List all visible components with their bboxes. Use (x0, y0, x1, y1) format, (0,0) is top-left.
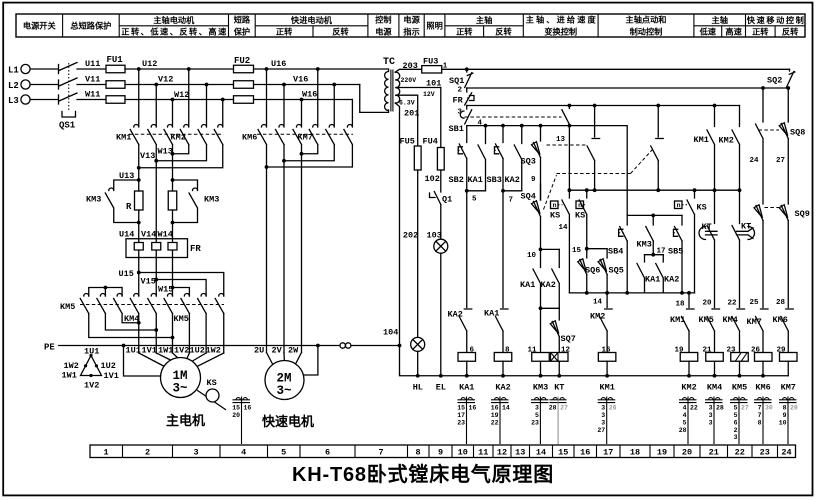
dashed linkage KM6-KM7 (257, 133, 353, 135)
coil KM4 (706, 353, 724, 362)
svg-text:KM3: KM3 (204, 195, 219, 205)
svg-text:1V1: 1V1 (104, 371, 119, 381)
svg-text:KM5: KM5 (732, 383, 747, 393)
brake KA1 KA2 pair (520, 249, 559, 310)
contact SB1 bypass (562, 106, 570, 191)
wire L1 to QS1 (30, 68, 57, 70)
svg-text:KM4: KM4 (707, 383, 722, 393)
motor 2M (265, 361, 304, 400)
contact usage table KM5 (730, 397, 749, 445)
svg-text:V15: V15 (141, 277, 156, 287)
svg-text:KT: KT (554, 383, 564, 393)
contact SQ3-linked interlock (587, 106, 600, 191)
svg-text:SQ1: SQ1 (449, 76, 464, 86)
svg-text:KA1: KA1 (645, 275, 660, 285)
contact usage table KM3 (531, 397, 549, 445)
svg-text:5: 5 (683, 419, 687, 426)
svg-text:7: 7 (378, 448, 383, 458)
svg-text:KM6: KM6 (242, 133, 257, 143)
svg-text:21: 21 (709, 448, 719, 458)
svg-text:KA1: KA1 (520, 280, 535, 290)
contact KM3 aux (637, 215, 654, 254)
node 5 bar (467, 190, 486, 192)
svg-text:3: 3 (709, 404, 713, 411)
jog button SB5 (668, 215, 683, 293)
svg-text:16: 16 (469, 404, 477, 411)
svg-text:11: 11 (478, 448, 488, 458)
winding bus wires (89, 314, 173, 338)
svg-text:13: 13 (515, 448, 525, 458)
svg-text:8: 8 (783, 404, 787, 411)
limit switch SQ3 (521, 126, 541, 200)
svg-text:1W1: 1W1 (62, 371, 77, 381)
svg-text:3: 3 (601, 404, 605, 411)
limit switch SQ1 (449, 67, 473, 87)
svg-text:220V: 220V (401, 77, 417, 84)
svg-text:KM2: KM2 (719, 136, 734, 146)
svg-text:低速: 低速 (699, 27, 717, 37)
fuse FU3 (422, 66, 442, 73)
svg-text:2: 2 (734, 427, 738, 434)
svg-text:U16: U16 (271, 59, 286, 69)
svg-text:22: 22 (728, 300, 738, 308)
speed relay contact KS-A (550, 190, 569, 293)
contact KM7 interlock (747, 309, 769, 353)
svg-text:7: 7 (758, 404, 762, 411)
svg-text:FU2: FU2 (234, 56, 250, 66)
wire 1 / control top rail (442, 68, 790, 70)
contact KM2 run aux (719, 106, 742, 193)
contactor KM7 main contacts (309, 69, 352, 145)
svg-text:202: 202 (403, 231, 418, 241)
svg-text:27: 27 (776, 157, 785, 165)
svg-text:V12: V12 (158, 75, 173, 85)
svg-text:KS: KS (207, 378, 217, 388)
svg-text:主电机: 主电机 (166, 413, 205, 428)
svg-text:14: 14 (536, 448, 546, 458)
svg-text:12V: 12V (423, 91, 435, 98)
svg-text:正转: 正转 (276, 27, 293, 37)
svg-text:W16: W16 (302, 90, 317, 100)
svg-text:22: 22 (491, 419, 499, 426)
svg-text:SB4: SB4 (608, 247, 623, 257)
svg-text:9: 9 (531, 176, 536, 184)
switch Q1 (430, 192, 453, 205)
contactor KM4 contacts (130, 294, 172, 314)
contact usage table KT (549, 397, 568, 445)
svg-text:TC: TC (383, 57, 395, 68)
svg-text:17: 17 (603, 448, 613, 458)
svg-text:20: 20 (703, 300, 713, 308)
svg-text:V14: V14 (141, 230, 156, 240)
limit switch SQ5 (598, 249, 624, 293)
limit switch SQ9 right (765, 205, 810, 308)
svg-text:3: 3 (601, 412, 605, 419)
svg-text:快速电机: 快速电机 (262, 414, 314, 429)
wire 2 (467, 87, 789, 89)
svg-text:1V1: 1V1 (142, 346, 157, 356)
merge rail wire 14 (569, 292, 694, 294)
contact KA1 interlock (484, 309, 508, 353)
svg-text:快进电动机: 快进电动机 (290, 15, 333, 25)
svg-text:SB2: SB2 (449, 175, 464, 185)
svg-text:U11: U11 (85, 59, 100, 69)
motor lead wires 1M (139, 314, 224, 354)
jog KA1 KA2 pair (637, 255, 679, 293)
svg-text:反转: 反转 (495, 27, 512, 37)
contact usage table KA2 (491, 397, 510, 445)
svg-text:3: 3 (709, 419, 713, 426)
svg-text:KA2: KA2 (505, 175, 520, 185)
svg-text:15: 15 (558, 448, 568, 458)
wire 101 FU4 branch (440, 88, 442, 148)
svg-text:SB5: SB5 (668, 247, 683, 257)
svg-text:25: 25 (750, 299, 760, 307)
limit switch SQ8 (759, 88, 806, 204)
svg-text:19: 19 (491, 412, 499, 419)
contactor KM2 main contacts (180, 69, 223, 145)
node 17 (651, 253, 655, 257)
contact usage table KM2 (679, 397, 698, 445)
svg-text:KS: KS (575, 211, 585, 221)
svg-text:KM5: KM5 (174, 314, 189, 324)
fuse FU4 (437, 148, 444, 171)
svg-text:29: 29 (790, 404, 798, 411)
svg-text:反转: 反转 (782, 27, 799, 37)
speed relay KS link (198, 391, 226, 410)
svg-text:KM3: KM3 (86, 195, 101, 205)
jog button SB4 (608, 215, 627, 293)
svg-text:KA2: KA2 (448, 310, 463, 320)
start button SB2 (449, 126, 467, 191)
lamp HL (411, 337, 425, 375)
svg-text:反转: 反转 (332, 27, 349, 37)
svg-text:V11: V11 (85, 75, 100, 85)
svg-text:主轴电动机: 主轴电动机 (153, 15, 195, 25)
svg-text:16: 16 (491, 404, 499, 411)
star point bar KM5 (89, 288, 122, 297)
svg-text:照明: 照明 (426, 22, 442, 31)
wire V12 phase line (125, 84, 360, 86)
svg-text:电源: 电源 (403, 15, 420, 25)
svg-text:28: 28 (776, 299, 786, 307)
svg-text:1U1: 1U1 (84, 347, 99, 357)
svg-text:SQ9: SQ9 (795, 209, 810, 219)
coil KA2 (494, 353, 512, 362)
svg-text:制动控制: 制动控制 (630, 27, 663, 37)
dashed linkage KM1-KM2 (129, 133, 224, 135)
contact KM6 interlock (773, 309, 794, 353)
terminal labels 2M (254, 346, 299, 356)
svg-text:27: 27 (597, 427, 605, 434)
svg-text:16: 16 (580, 448, 590, 458)
dashed link SQ3 to interlock (547, 144, 587, 146)
svg-text:4: 4 (241, 448, 246, 458)
svg-text:20: 20 (232, 412, 240, 419)
svg-text:KA1: KA1 (484, 309, 499, 319)
wire 4 bus (467, 126, 627, 216)
svg-text:U12: U12 (142, 59, 157, 69)
limit switch SQ6 (578, 249, 601, 293)
svg-text:W12: W12 (174, 90, 189, 100)
svg-text:正转: 正转 (456, 27, 473, 37)
wire U12 phase line (125, 68, 389, 70)
svg-text:28: 28 (549, 404, 557, 411)
start button SB3 (487, 126, 504, 191)
rapid branch contact SQ8-linked (756, 86, 765, 204)
svg-text:U15: U15 (119, 269, 134, 279)
svg-text:28: 28 (679, 427, 687, 434)
svg-text:KA1: KA1 (468, 175, 483, 185)
wire L2 to QS1 (30, 84, 57, 86)
svg-text:R: R (126, 202, 132, 212)
svg-text:KT: KT (702, 222, 712, 232)
wire 103 (440, 205, 442, 240)
coil KM3 (532, 353, 550, 362)
svg-text:PE: PE (44, 343, 55, 353)
svg-text:SQ2: SQ2 (767, 76, 782, 86)
svg-text:KS: KS (550, 211, 560, 221)
svg-text:8: 8 (415, 448, 420, 458)
wire PE line (59, 345, 400, 347)
svg-text:KM4: KM4 (723, 315, 738, 325)
svg-text:控制: 控制 (375, 15, 391, 25)
svg-text:U14: U14 (119, 230, 134, 240)
jog box top bar (627, 214, 682, 216)
contact SQ4-linked interlock (651, 106, 664, 191)
svg-text:3: 3 (734, 434, 738, 441)
svg-text:1: 1 (443, 63, 448, 71)
contact KM3 left bypass (105, 180, 139, 223)
coil drop wires (467, 361, 789, 376)
svg-text:KA2: KA2 (495, 383, 510, 393)
wire 102 (440, 170, 442, 192)
svg-text:电源开关: 电源开关 (23, 21, 57, 31)
svg-text:2: 2 (458, 87, 463, 95)
svg-text:2U: 2U (254, 346, 264, 356)
wire 3 (467, 105, 740, 107)
coil KM1 (598, 353, 616, 362)
contact KM2 interlock (590, 293, 612, 353)
svg-text:L1: L1 (8, 65, 19, 75)
svg-text:3~: 3~ (173, 382, 188, 396)
speed relay contact KS-B (575, 190, 587, 249)
contact usage table KM6 (754, 397, 773, 445)
svg-text:KS: KS (697, 203, 707, 213)
coil KM5 (731, 353, 749, 362)
svg-text:KM3: KM3 (637, 240, 652, 250)
contact usage table KM1 (597, 397, 616, 445)
wire W13 through R2 (172, 180, 174, 239)
wire KM2 cross outputs (139, 145, 223, 168)
svg-text:14: 14 (559, 224, 569, 232)
speed relay KS (206, 389, 219, 402)
wire KM1 outputs U13 V13 W13 (139, 145, 173, 239)
svg-text:KH-T68卧式镗床电气原理图: KH-T68卧式镗床电气原理图 (292, 462, 554, 486)
wire V15 branch (156, 280, 206, 297)
fuse FU2 (234, 56, 254, 103)
svg-text:5: 5 (535, 412, 539, 419)
svg-text:变换控制: 变换控制 (544, 27, 577, 37)
svg-text:101: 101 (426, 79, 441, 89)
svg-text:KM6: KM6 (773, 315, 788, 325)
wire W11 (77, 99, 106, 101)
limit switch SQ4 (521, 184, 541, 249)
svg-text:3: 3 (601, 419, 605, 426)
contact KM5 interlock (699, 309, 720, 353)
svg-text:KM2: KM2 (681, 383, 696, 393)
svg-text:n: n (677, 202, 681, 209)
svg-text:27: 27 (741, 404, 749, 411)
svg-text:15: 15 (232, 404, 240, 411)
svg-text:主轴: 主轴 (712, 15, 728, 25)
resistor R2 (W13) (168, 191, 177, 210)
motor lead slants 2M (267, 353, 302, 365)
svg-text:28: 28 (716, 404, 724, 411)
node 7 bar (503, 190, 522, 192)
wire U13 through R (138, 180, 140, 239)
limit switch SQ7 (550, 308, 576, 352)
svg-text:8: 8 (505, 347, 510, 355)
svg-text:EL: EL (436, 383, 446, 393)
contact KA1 self-hold (468, 126, 486, 191)
svg-text:23: 23 (531, 419, 539, 426)
svg-text:n: n (553, 202, 557, 209)
contact KM1 run aux (694, 106, 715, 191)
svg-text:1W1: 1W1 (158, 346, 173, 356)
resistor R (U13) (135, 191, 144, 210)
coil KA1 (458, 353, 476, 362)
node W13 junction (171, 178, 175, 182)
svg-text:4: 4 (683, 412, 687, 419)
svg-text:24: 24 (750, 157, 760, 165)
wire W15 branch (173, 288, 190, 297)
svg-text:SQ3: SQ3 (521, 157, 536, 167)
svg-text:18: 18 (630, 448, 640, 458)
svg-text:KT: KT (741, 222, 751, 232)
coil KM2 (680, 353, 698, 362)
motor 1M (161, 358, 201, 398)
svg-text:1W2: 1W2 (206, 346, 221, 356)
svg-text:主轴: 主轴 (476, 15, 492, 25)
svg-text:20: 20 (682, 448, 692, 458)
coil KM6 (755, 353, 773, 362)
contact KA2 interlock (448, 309, 472, 353)
svg-text:13: 13 (556, 136, 566, 144)
svg-text:HL: HL (413, 383, 423, 393)
svg-text:短路: 短路 (234, 15, 251, 25)
wires FR to U15 V15 W15 (139, 258, 173, 297)
terminal circles L1 L2 L3 (21, 64, 30, 73)
header table grid (16, 14, 805, 37)
svg-text:102: 102 (425, 174, 440, 184)
svg-text:正转、低速、反转、高速: 正转、低速、反转、高速 (121, 27, 227, 37)
svg-text:正转: 正转 (752, 27, 769, 37)
svg-text:高速: 高速 (725, 27, 742, 37)
svg-text:4: 4 (478, 120, 483, 128)
junction dots on phase lines (137, 67, 336, 101)
svg-text:3: 3 (535, 404, 539, 411)
svg-text:14: 14 (502, 404, 510, 411)
svg-text:保护: 保护 (233, 27, 250, 37)
svg-text:3: 3 (193, 448, 198, 458)
svg-text:FU4: FU4 (423, 137, 438, 147)
PE to 2M frame (304, 346, 318, 376)
svg-text:15: 15 (572, 247, 582, 255)
dashed link SQ4 to interlock (544, 150, 653, 210)
svg-text:KM1: KM1 (670, 315, 685, 325)
coil KM7 (780, 353, 798, 362)
lamp EL (434, 239, 448, 376)
svg-text:9: 9 (438, 448, 443, 458)
svg-text:18: 18 (676, 301, 686, 309)
svg-text:总短路保护: 总短路保护 (70, 21, 111, 31)
svg-text:KM2: KM2 (590, 312, 605, 322)
wire 7 to KA1 coil (502, 191, 504, 308)
svg-text:10: 10 (458, 448, 468, 458)
svg-text:SQ7: SQ7 (561, 334, 576, 344)
svg-text:15: 15 (457, 404, 465, 411)
svg-text:W14: W14 (158, 230, 173, 240)
svg-text:V13: V13 (140, 151, 155, 161)
contactor KM5 star contacts (80, 294, 122, 314)
thermal contact FR (453, 88, 475, 106)
svg-text:QS1: QS1 (59, 121, 76, 131)
svg-text:5: 5 (734, 404, 738, 411)
fuse FU1 (106, 55, 125, 103)
svg-text:FU5: FU5 (400, 137, 415, 147)
svg-text:SB1: SB1 (449, 124, 464, 134)
svg-text:SQ5: SQ5 (609, 266, 624, 276)
switch QS1 (59, 63, 78, 131)
svg-text:1U2: 1U2 (101, 361, 116, 371)
connector on PE/104 line (340, 343, 345, 348)
svg-text:FR: FR (190, 244, 201, 254)
contactor KM6 main contacts (258, 69, 302, 145)
svg-text:SQ8: SQ8 (790, 128, 805, 138)
svg-text:FU3: FU3 (423, 57, 438, 67)
svg-text:2: 2 (145, 448, 150, 458)
svg-text:W13: W13 (158, 147, 173, 157)
svg-text:22: 22 (690, 404, 698, 411)
svg-text:203: 203 (403, 61, 418, 71)
svg-text:10: 10 (779, 419, 787, 426)
contact KM3 right bypass (173, 180, 198, 223)
svg-text:W11: W11 (85, 90, 100, 100)
column number strip (90, 445, 796, 458)
svg-text:FR: FR (453, 96, 464, 106)
svg-text:电源: 电源 (375, 27, 392, 37)
svg-text:2V: 2V (272, 346, 283, 356)
svg-text:14: 14 (593, 299, 603, 307)
terminal labels 1M (126, 346, 221, 356)
svg-text:1V2: 1V2 (84, 381, 99, 391)
dashed linkage KM5-KM4-KM5 (80, 304, 224, 306)
timed contact KT-2 (732, 190, 755, 307)
contactor KM5 second winding contacts (181, 294, 224, 314)
svg-text:6: 6 (325, 448, 330, 458)
wire W12 phase line (125, 99, 352, 101)
coil KT (551, 353, 569, 362)
svg-text:KA1: KA1 (459, 383, 474, 393)
speed relay contact KS-C (675, 190, 707, 293)
contact usage table KA1 (457, 397, 476, 445)
svg-text:指示: 指示 (403, 27, 419, 37)
stop button SB1 (449, 106, 562, 135)
svg-text:3~: 3~ (277, 384, 292, 398)
svg-text:7: 7 (509, 197, 514, 205)
svg-text:KM7: KM7 (781, 383, 796, 393)
